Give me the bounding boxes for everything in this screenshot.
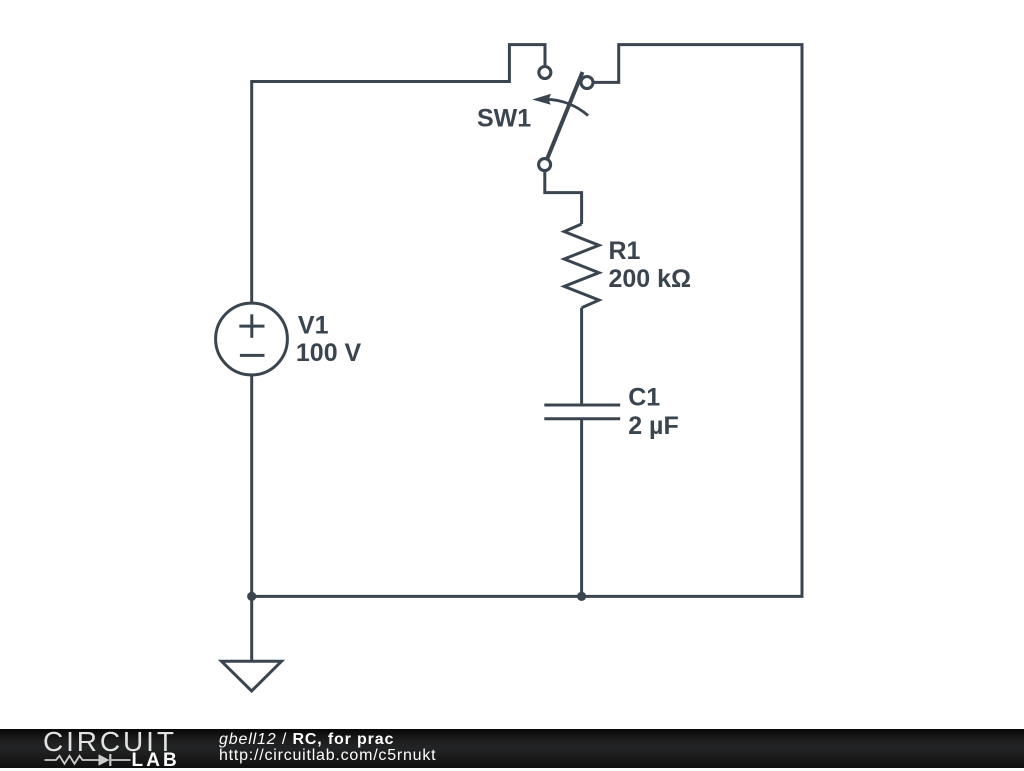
svg-text:V1: V1 bbox=[298, 311, 329, 339]
svg-text:2 µF: 2 µF bbox=[628, 412, 679, 440]
svg-text:C1: C1 bbox=[628, 383, 660, 411]
label V1 value bbox=[296, 311, 362, 367]
footer bar bbox=[0, 729, 1024, 769]
junction node at V1 / ground bbox=[247, 592, 256, 601]
label R1 value bbox=[609, 237, 692, 293]
svg-text:R1: R1 bbox=[609, 237, 641, 265]
ground bbox=[222, 596, 282, 691]
wire from switch pole to right rail and bottom rail bbox=[252, 45, 802, 597]
footer title line bbox=[219, 732, 394, 748]
switch SW1 bbox=[532, 67, 593, 171]
voltage source V1 bbox=[216, 303, 288, 375]
svg-text:100 V: 100 V bbox=[296, 339, 362, 367]
CircuitLab logo wordmark CIRCUIT bbox=[43, 728, 177, 756]
svg-text:200 kΩ: 200 kΩ bbox=[609, 265, 692, 293]
footer url line bbox=[219, 748, 436, 764]
CircuitLab logo LAB bbox=[132, 751, 180, 770]
svg-text:SW1: SW1 bbox=[477, 105, 531, 133]
CircuitLab logo resistor-diode glyph bbox=[43, 752, 132, 768]
label C1 value bbox=[628, 383, 679, 440]
junction node at C1 / bottom rail bbox=[577, 592, 586, 601]
wire from V1 bottom to bottom rail bbox=[250, 375, 253, 596]
wire from V1 top to switch throw terminal bbox=[252, 45, 545, 303]
resistor R1 bbox=[564, 224, 599, 308]
wire from C1 to bottom rail bbox=[580, 419, 583, 597]
capacitor C1 bbox=[544, 405, 620, 419]
wire from R1 to capacitor C1 bbox=[580, 308, 583, 405]
wire from switch common to resistor R1 bbox=[545, 172, 582, 224]
